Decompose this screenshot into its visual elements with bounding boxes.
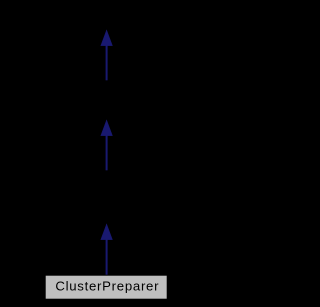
node box — [45, 275, 167, 299]
svg-text:ClusterPreparer: ClusterPreparer — [55, 278, 159, 293]
node ClusterPreparer — [45, 275, 167, 299]
inheritance arrow 3 (bottom, pointing up) — [101, 224, 112, 275]
inheritance arrow 2 (middle, pointing up) — [101, 120, 112, 170]
inheritance arrow 1 (topmost, pointing up) — [101, 30, 112, 80]
